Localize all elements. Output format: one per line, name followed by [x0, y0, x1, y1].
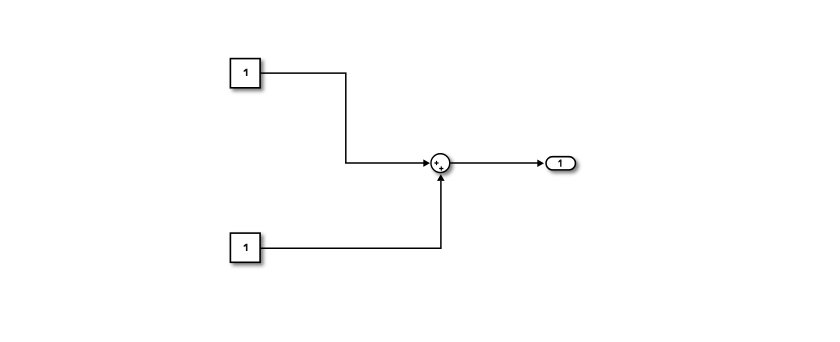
- sum plus sign (left input): [434, 161, 438, 165]
- arrowhead into Sum left port: [423, 159, 430, 167]
- constant C1 value label "1": [244, 69, 248, 76]
- constant block C1 (value 1): [230, 59, 260, 88]
- constant block C2 (value 1): [230, 233, 260, 262]
- arrowhead into Out1: [537, 159, 544, 167]
- wire from Sum output to Out1: [450, 162, 537, 164]
- sum plus sign (bottom input): [439, 166, 443, 170]
- wire from Constant1 output to Sum left input: [260, 73, 423, 163]
- arrowhead into Sum bottom port: [437, 174, 445, 181]
- outport label "1": [558, 160, 561, 167]
- sum block (circle): [431, 154, 450, 173]
- wire from Constant2 output to Sum bottom input: [260, 181, 441, 248]
- constant C2 value label "1": [244, 244, 248, 251]
- outport block Out1: [546, 157, 575, 170]
